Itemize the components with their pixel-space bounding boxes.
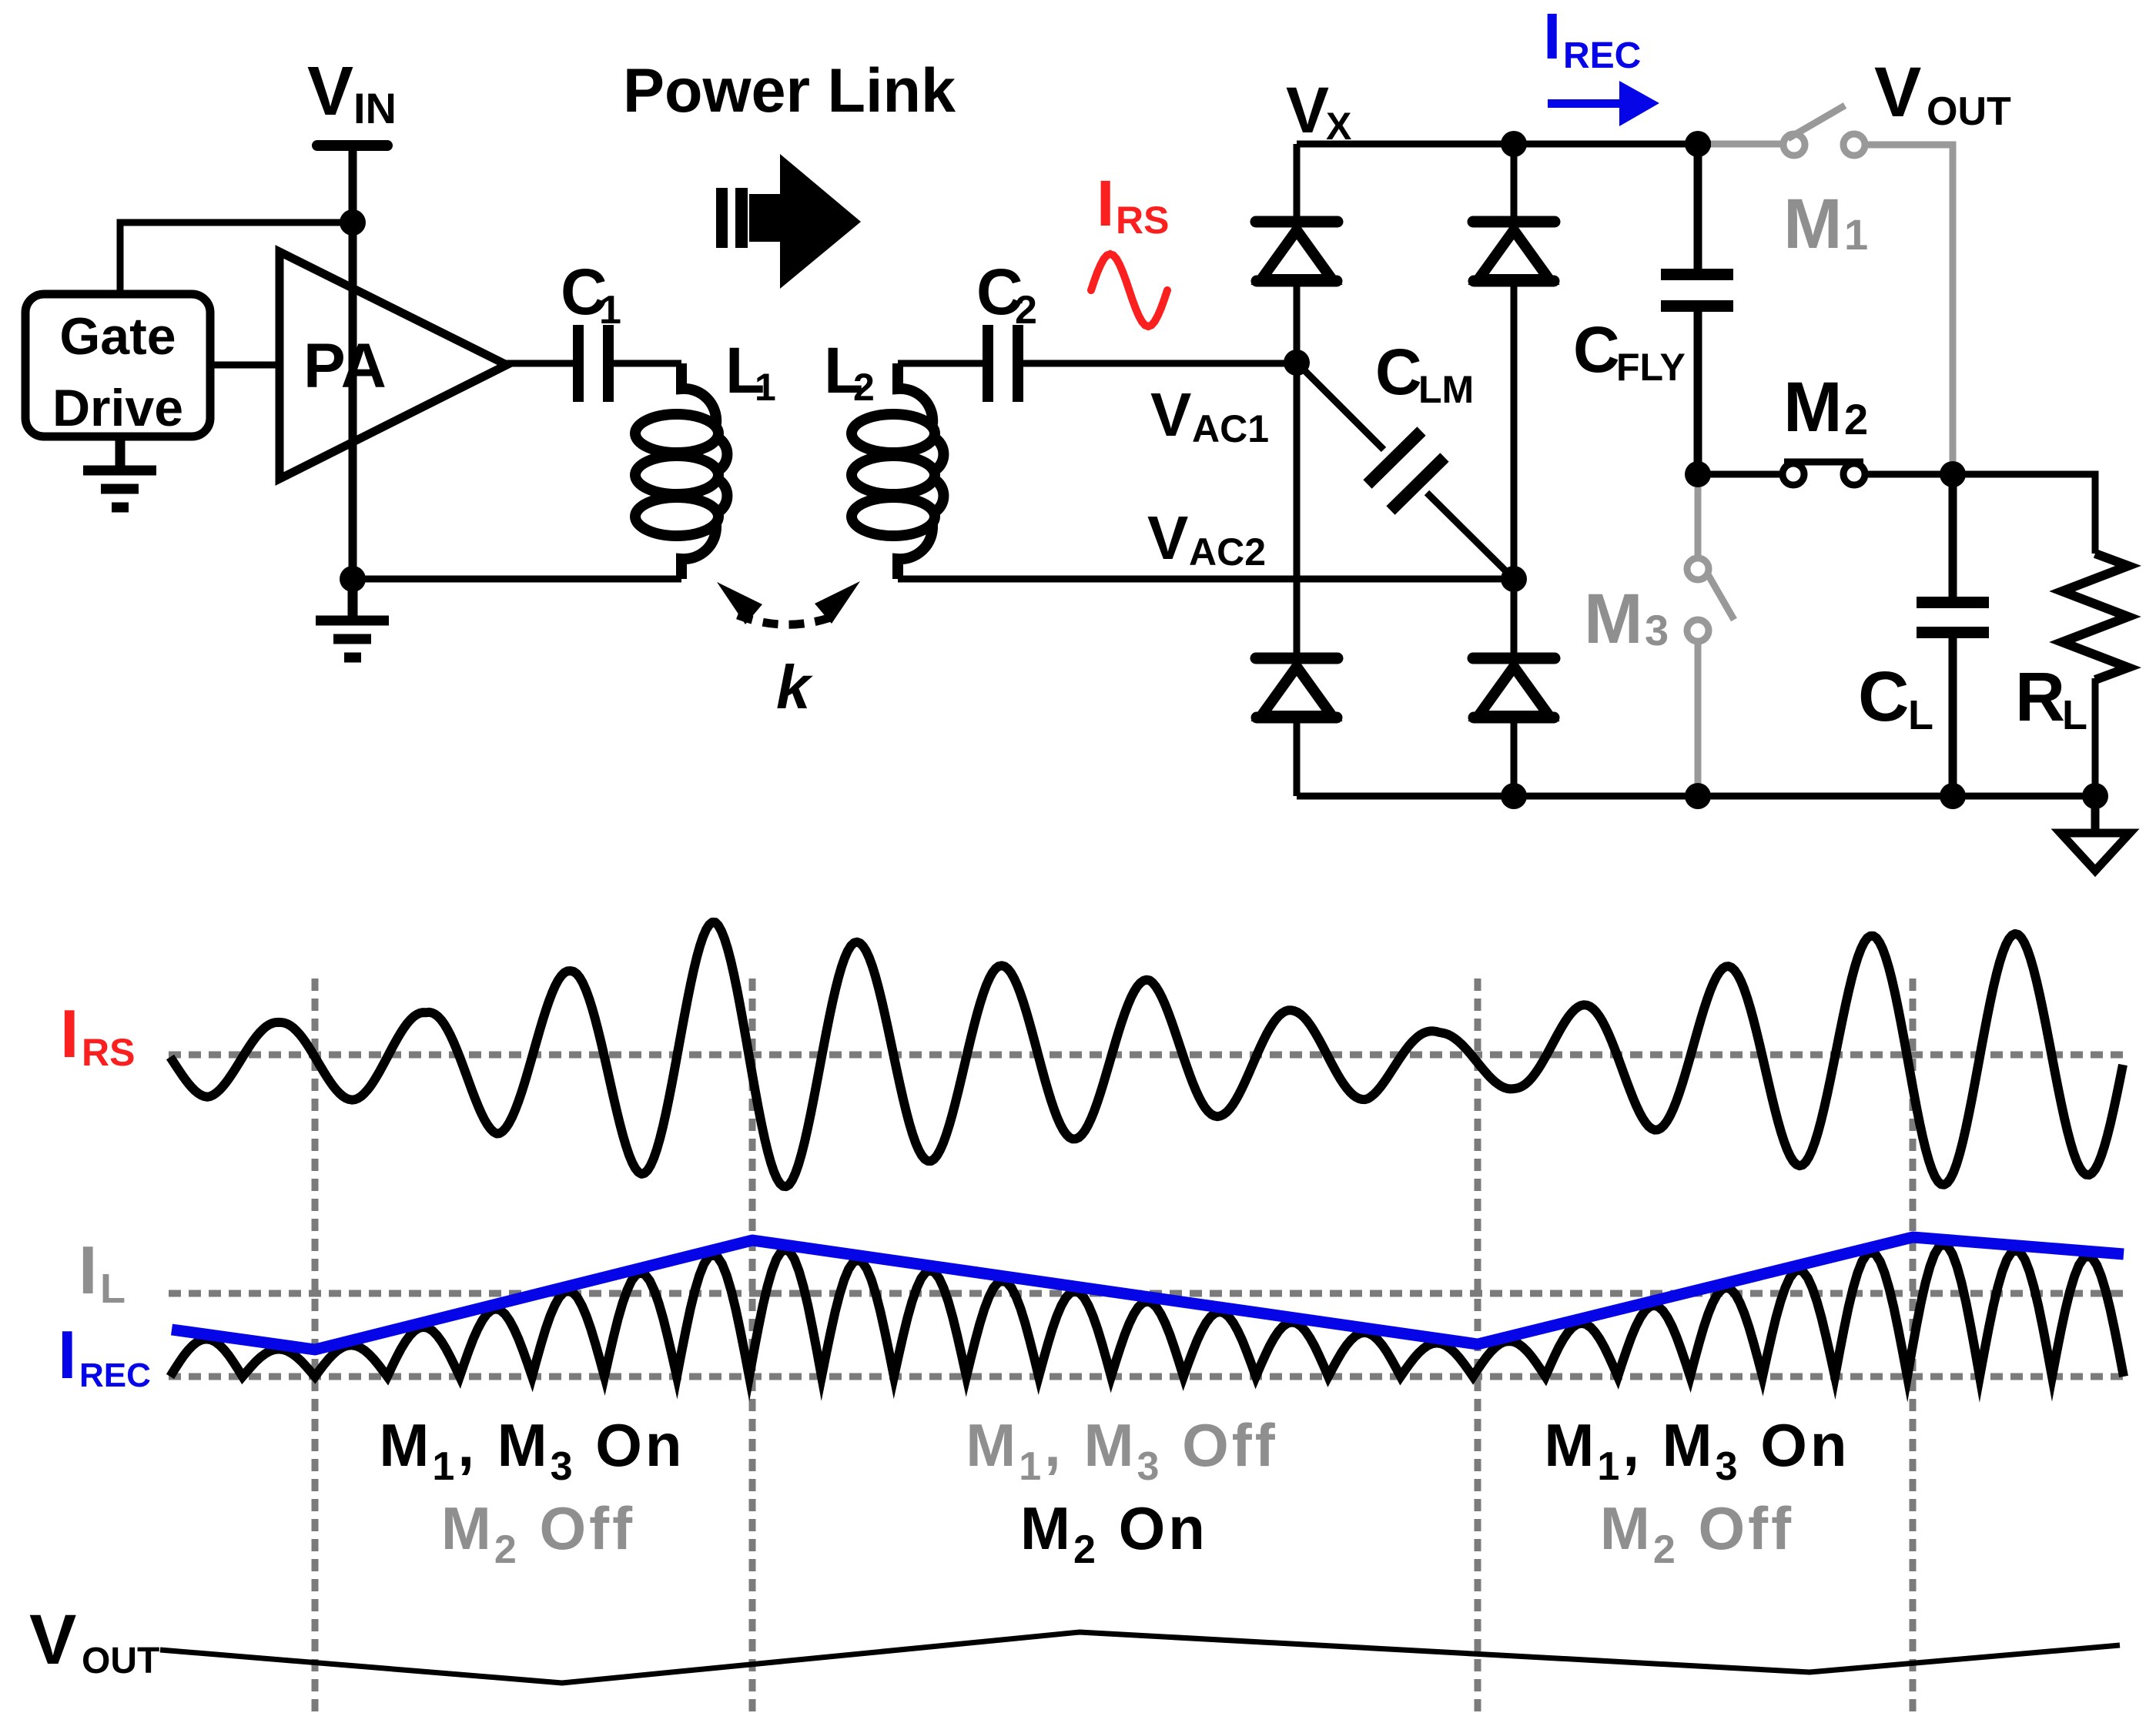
capacitor CL <box>1949 474 1957 597</box>
node bottom rail / RL <box>2082 783 2108 809</box>
svg-text:V: V <box>1147 504 1188 572</box>
dashed baseline IL <box>169 1290 2128 1297</box>
diode D3 (bottom left) <box>1256 653 1337 664</box>
dashed baseline IREC <box>169 1373 2128 1380</box>
svg-text:I: I <box>58 1316 76 1393</box>
svg-text:L: L <box>100 1266 126 1312</box>
svg-text:V: V <box>307 53 353 130</box>
svg-text:M2​ On: M2​ On <box>1020 1494 1208 1572</box>
svg-text:RS: RS <box>1116 199 1169 242</box>
capacitor C2 <box>983 325 993 402</box>
svg-text:1: 1 <box>599 288 621 333</box>
waveform VOUT trace <box>160 1632 2120 1683</box>
svg-text:M: M <box>1783 185 1843 263</box>
wire L2 top to C2 <box>898 360 983 367</box>
svg-text:L: L <box>2062 692 2087 738</box>
svg-text:OUT: OUT <box>82 1641 159 1681</box>
svg-text:M1​, M3​ On: M1​, M3​ On <box>379 1411 685 1489</box>
svg-text:M: M <box>1584 580 1643 658</box>
svg-text:Drive: Drive <box>52 379 183 437</box>
wire Gate Drive to PA input <box>210 362 280 369</box>
svg-text:3: 3 <box>1645 606 1669 654</box>
node top rail / CFLY branch <box>1685 131 1711 157</box>
ground under Gate Drive <box>83 437 156 507</box>
resistor RL <box>2062 554 2128 680</box>
wire node down through PA to ground rail <box>349 222 357 579</box>
svg-text:REC: REC <box>79 1357 151 1394</box>
wire VIN to node <box>349 151 357 222</box>
svg-text:C: C <box>1573 313 1620 386</box>
wire PA output to C1 <box>505 360 573 367</box>
diode D1 (top left) <box>1256 216 1337 228</box>
dashed phase boundary 4 <box>1910 979 1917 1715</box>
svg-text:LM: LM <box>1418 368 1474 411</box>
inductor L1 <box>635 363 727 579</box>
wire left branch (VX rail to VAC1 to bottom rail) <box>1294 144 1301 796</box>
node CFLY bottom / M2 left <box>1685 461 1711 487</box>
svg-text:M2​ Off: M2​ Off <box>441 1494 635 1572</box>
wire C1 to L1 <box>614 360 681 367</box>
svg-text:FLY: FLY <box>1616 346 1686 389</box>
capacitor CFLY <box>1694 144 1702 269</box>
svg-text:C: C <box>1858 657 1909 736</box>
red sine symbol <box>1091 254 1167 326</box>
wire right branch <box>1511 144 1518 796</box>
node top rail / right branch <box>1501 131 1527 157</box>
waveform IREC (rectified humps) <box>170 1244 2124 1377</box>
svg-text:M1​, M3​ On: M1​, M3​ On <box>1544 1411 1850 1489</box>
capacitor C1 <box>573 325 584 402</box>
waveform IL (blue average) <box>172 1237 2124 1350</box>
node VOUT junction <box>1940 461 1966 487</box>
node bottom rail / M3 <box>1685 783 1711 809</box>
svg-text:V: V <box>1874 53 1921 132</box>
svg-text:AC1: AC1 <box>1192 407 1269 450</box>
svg-text:RS: RS <box>82 1031 135 1074</box>
wire L2 bottom to VAC2 <box>898 576 1514 583</box>
svg-text:2: 2 <box>1015 288 1037 333</box>
dashed phase boundary 1 <box>312 979 319 1715</box>
coupling k dashed arc with arrows <box>738 614 839 624</box>
svg-text:M1​, M3​ Off: M1​, M3​ Off <box>966 1411 1277 1489</box>
svg-text:REC: REC <box>1563 35 1641 76</box>
node VAC1 <box>1284 350 1310 376</box>
svg-text:1: 1 <box>1844 210 1868 259</box>
inductor L2 <box>852 363 943 579</box>
power flow arrow <box>716 154 861 289</box>
dashed phase boundary 3 <box>1475 979 1481 1715</box>
svg-text:L: L <box>1908 692 1933 738</box>
svg-text:PA: PA <box>303 331 387 401</box>
svg-text:V: V <box>1286 74 1329 146</box>
svg-text:I: I <box>1543 0 1561 72</box>
svg-text:V: V <box>29 1601 76 1679</box>
node bottom rail / CL <box>1940 783 1966 809</box>
dashed phase boundary 2 <box>749 979 756 1715</box>
svg-text:M: M <box>1783 368 1843 447</box>
svg-text:I: I <box>1096 167 1114 239</box>
wire top rail VX <box>1297 141 1712 148</box>
switch M3 (gray, open) <box>1687 487 1734 796</box>
supply VIN bar <box>312 140 393 151</box>
svg-text:V: V <box>1150 380 1191 449</box>
wire VOUT node to RL <box>1953 474 2095 554</box>
dashed baseline IRS <box>169 1052 2128 1059</box>
svg-text:X: X <box>1326 105 1351 148</box>
node bottom rail / right branch <box>1501 783 1527 809</box>
svg-text:R: R <box>2015 659 2065 736</box>
svg-text:AC2: AC2 <box>1189 530 1266 574</box>
ground under PA <box>316 579 389 657</box>
svg-text:1: 1 <box>755 366 776 409</box>
node PA ground <box>340 566 366 592</box>
waveform IRS (resonant current) <box>170 922 2123 1186</box>
svg-text:IN: IN <box>353 84 397 132</box>
wire bottom rail <box>1297 793 2095 800</box>
node CLM/VAC2 <box>1501 566 1527 592</box>
switch M2 <box>1698 462 1953 485</box>
svg-text:M2​ Off: M2​ Off <box>1600 1494 1794 1572</box>
svg-text:Gate: Gate <box>59 307 176 366</box>
diode D4 (bottom right) <box>1473 653 1555 664</box>
svg-text:2: 2 <box>1844 395 1868 443</box>
svg-text:C: C <box>1375 336 1422 408</box>
node VIN/PA <box>340 209 366 236</box>
capacitor CLM (diagonal) <box>1297 363 1384 450</box>
block Gate Drive <box>25 294 210 437</box>
wire L1 bottom to PA ground rail <box>353 576 681 583</box>
wire node to Gate Drive top <box>120 222 353 294</box>
svg-text:I: I <box>79 1232 97 1308</box>
wire C2 to VAC1 node <box>1023 360 1297 367</box>
blue current arrow <box>1548 81 1659 126</box>
svg-text:Power Link: Power Link <box>623 56 956 125</box>
op-amp PA <box>280 252 507 479</box>
switch M1 (gray, open) <box>1711 105 1953 474</box>
svg-text:I: I <box>60 995 79 1072</box>
ground (output) <box>2091 796 2100 833</box>
diode D2 (top right) <box>1473 216 1555 228</box>
svg-text:k: k <box>776 653 813 721</box>
svg-text:OUT: OUT <box>1927 89 2011 134</box>
svg-text:2: 2 <box>853 366 875 409</box>
